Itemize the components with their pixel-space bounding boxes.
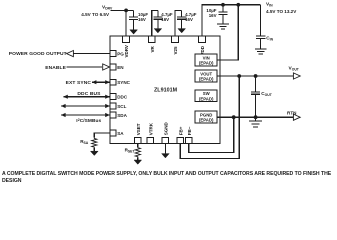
svg-text:ZL9101M: ZL9101M bbox=[154, 88, 178, 94]
pin SW (EPAD) (right) bbox=[195, 90, 217, 102]
junction FB+ riser on VOUT bbox=[237, 74, 241, 78]
svg-text:4.5V TO 6.5V: 4.5V TO 6.5V bbox=[81, 12, 110, 17]
pin PGND (EPAD) (right) bbox=[195, 111, 217, 123]
pin FB+ (bottom) bbox=[177, 137, 183, 143]
svg-text:(EPAD): (EPAD) bbox=[199, 77, 214, 82]
resistor RSET bbox=[135, 147, 140, 158]
junction C4 bbox=[221, 3, 225, 7]
svg-text:VTRK: VTRK bbox=[148, 122, 153, 135]
ground (CIN earth) bbox=[255, 48, 267, 50]
pin VDRV (top) bbox=[123, 36, 130, 42]
svg-text:SGND: SGND bbox=[163, 121, 168, 135]
junction COUT top bbox=[254, 74, 258, 78]
pin SYNC (left) bbox=[110, 79, 116, 85]
ground (C1) bbox=[130, 30, 138, 34]
svg-text:16V: 16V bbox=[185, 17, 193, 22]
svg-text:DDC BUS: DDC BUS bbox=[77, 91, 101, 97]
wire SGND stub bbox=[164, 144, 166, 154]
ground (SGND) bbox=[162, 154, 170, 158]
svg-text:VDRV: VDRV bbox=[102, 5, 113, 11]
svg-text:RTN: RTN bbox=[287, 111, 297, 116]
svg-text:FB−: FB− bbox=[187, 126, 192, 135]
ground (COUT earth) bbox=[255, 117, 257, 121]
ground (C4 earth) bbox=[217, 23, 229, 25]
svg-text:A COMPLETE DIGITAL SWITCH MODE: A COMPLETE DIGITAL SWITCH MODE POWER SUP… bbox=[2, 171, 332, 177]
svg-text:VSET: VSET bbox=[136, 123, 141, 135]
junction COUT bottom on RTN bbox=[254, 115, 258, 119]
svg-text:RSA: RSA bbox=[80, 139, 89, 145]
svg-text:4.5V TO 13.2V: 4.5V TO 13.2V bbox=[266, 9, 297, 14]
pin VTRK (bottom) bbox=[147, 137, 153, 143]
capacitor C1 10uF bbox=[133, 10, 135, 17]
chip U1 ZL9101M outline bbox=[110, 36, 220, 144]
wire VDD pin riser and VIN rail bbox=[202, 5, 261, 36]
wire FB- to RTN bbox=[189, 117, 234, 152]
wire PG bbox=[73, 53, 110, 55]
svg-text:POWER GOOD OUTPUT: POWER GOOD OUTPUT bbox=[9, 51, 67, 57]
svg-text:(EPAD): (EPAD) bbox=[199, 96, 214, 101]
svg-text:VDRV: VDRV bbox=[124, 45, 129, 57]
pin SGND (bottom) bbox=[162, 137, 168, 143]
junction VIN riser bbox=[236, 3, 240, 7]
svg-text:VOUT: VOUT bbox=[289, 66, 300, 72]
wire VSET stub bbox=[137, 144, 139, 147]
wire VIN riser to VIN EPAD bbox=[217, 5, 238, 60]
svg-text:VIN: VIN bbox=[266, 2, 273, 8]
wire VR pin riser bbox=[152, 10, 158, 36]
wire EXT SYNC double arrow bbox=[92, 81, 110, 83]
svg-text:V25: V25 bbox=[173, 46, 178, 55]
pin SDA (left) bbox=[110, 112, 116, 118]
wire V25 pin riser bbox=[175, 10, 182, 36]
pin PG (left) bbox=[110, 51, 116, 57]
svg-text:(EPAD): (EPAD) bbox=[199, 61, 214, 66]
svg-text:VR: VR bbox=[150, 45, 155, 52]
svg-text:(EPAD): (EPAD) bbox=[199, 118, 214, 123]
svg-text:16V: 16V bbox=[209, 13, 217, 18]
svg-text:COUT: COUT bbox=[261, 91, 272, 97]
svg-text:DDC: DDC bbox=[117, 95, 128, 100]
ground (RSA) bbox=[93, 148, 95, 151]
node RTN arrow bbox=[293, 114, 300, 120]
wire RTN bbox=[217, 116, 294, 118]
wire SA bbox=[94, 133, 110, 138]
svg-text:SYNC: SYNC bbox=[117, 80, 130, 85]
capacitor C3 4.7uF bbox=[181, 10, 183, 16]
wire VDRV rail bbox=[110, 9, 133, 11]
pin EN (left) bbox=[110, 64, 116, 70]
svg-text:16V: 16V bbox=[161, 17, 169, 22]
wire EN bbox=[66, 66, 102, 68]
ground (RSET) bbox=[137, 158, 139, 160]
svg-text:SA: SA bbox=[117, 131, 124, 136]
wire DDC bus double arrow bbox=[63, 96, 109, 98]
wire VDRV pin riser bbox=[125, 10, 127, 36]
wire VOUT bbox=[217, 75, 294, 77]
svg-text:DESIGN: DESIGN bbox=[2, 178, 22, 184]
svg-text:ENABLE: ENABLE bbox=[45, 65, 66, 71]
svg-text:SDA: SDA bbox=[117, 113, 127, 118]
svg-text:CIN: CIN bbox=[266, 36, 273, 42]
svg-text:16V: 16V bbox=[138, 17, 146, 22]
pin VSET (bottom) bbox=[135, 137, 141, 143]
svg-text:FB+: FB+ bbox=[178, 126, 183, 135]
svg-text:EN: EN bbox=[117, 65, 124, 70]
wire SCL double arrow bbox=[61, 105, 110, 107]
svg-text:I2C/SMBus: I2C/SMBus bbox=[76, 117, 101, 123]
ground (C2) bbox=[154, 29, 162, 33]
node POWER GOOD OUTPUT arrow bbox=[67, 51, 74, 57]
svg-text:RSET: RSET bbox=[125, 147, 136, 153]
pin SCL (left) bbox=[110, 103, 116, 109]
resistor RSA bbox=[92, 138, 97, 148]
junction VDRV pin riser bbox=[124, 9, 128, 13]
ground (C3) bbox=[178, 29, 186, 33]
pin VR (top) bbox=[148, 36, 155, 42]
pin DDC (left) bbox=[110, 94, 116, 100]
pin FB- (bottom) bbox=[186, 137, 192, 143]
pin VIN (EPAD) (right) bbox=[195, 54, 217, 66]
pin V25 (top) bbox=[172, 36, 179, 42]
node VOUT arrow bbox=[293, 73, 300, 79]
capacitor C2 4.7uF bbox=[157, 10, 159, 16]
wire SDA double arrow bbox=[61, 114, 110, 116]
svg-text:EXT SYNC: EXT SYNC bbox=[66, 80, 92, 86]
pin VOUT (EPAD) (right) bbox=[195, 70, 217, 82]
node ENABLE arrow bbox=[103, 64, 110, 70]
svg-text:SCL: SCL bbox=[117, 104, 126, 109]
pin VDD (top) bbox=[199, 36, 206, 42]
capacitor COUT bbox=[255, 76, 257, 92]
svg-text:PG: PG bbox=[117, 52, 124, 57]
capacitor C4 10uF bbox=[222, 5, 224, 12]
pin SA (left) bbox=[110, 130, 116, 136]
capacitor CIN bbox=[260, 5, 262, 36]
junction FB- riser on RTN bbox=[232, 115, 236, 119]
wire FB+ to VOUT bbox=[180, 76, 239, 159]
